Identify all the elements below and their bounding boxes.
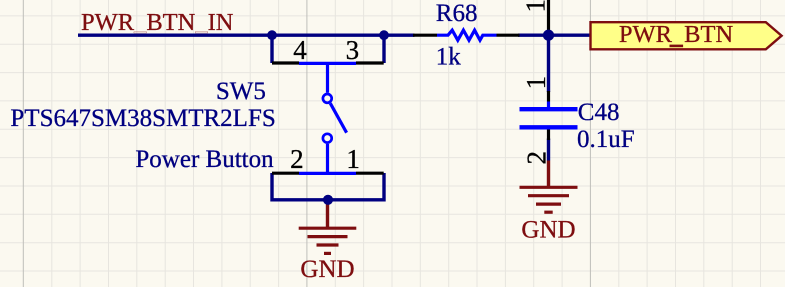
- svg-text:1: 1: [520, 0, 550, 13]
- svg-text:GND: GND: [521, 216, 575, 243]
- svg-text:R68: R68: [436, 0, 478, 27]
- svg-text:SW5: SW5: [216, 78, 266, 105]
- svg-text:1: 1: [346, 144, 360, 174]
- svg-text:3: 3: [346, 35, 360, 65]
- svg-text:0.1uF: 0.1uF: [577, 126, 635, 153]
- svg-text:1: 1: [521, 76, 551, 90]
- svg-text:1k: 1k: [436, 44, 462, 71]
- svg-text:2: 2: [290, 144, 304, 174]
- svg-text:C48: C48: [578, 99, 620, 126]
- svg-text:PTS647SM38SMTR2LFS: PTS647SM38SMTR2LFS: [10, 105, 275, 132]
- svg-text:4: 4: [293, 35, 307, 65]
- svg-text:Power Button: Power Button: [135, 146, 274, 173]
- svg-text:GND: GND: [300, 256, 354, 283]
- svg-text:PWR_BTN_IN: PWR_BTN_IN: [81, 9, 234, 36]
- svg-text:2: 2: [521, 151, 551, 165]
